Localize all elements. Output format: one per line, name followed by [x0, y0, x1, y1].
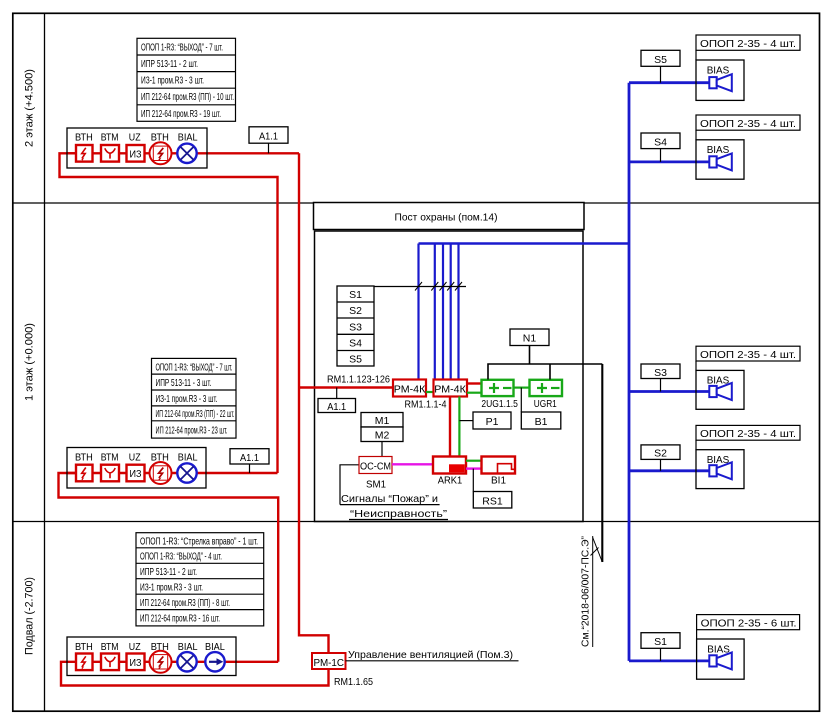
svg-text:ИПР 513-11 - 3 шт.: ИПР 513-11 - 3 шт. [156, 377, 212, 389]
svg-text:A1.1: A1.1 [240, 452, 259, 464]
box M2 [361, 427, 403, 442]
svg-text:ИПР 513-11 - 2 шт.: ИПР 513-11 - 2 шт. [141, 58, 198, 70]
power unit 2UG1.1.5 [482, 380, 514, 396]
lamp BIAL2 basement (arrow) [205, 652, 224, 671]
speaker BIAS S2 [696, 450, 744, 489]
wire RS1 tap [472, 469, 474, 492]
svg-text:BIAL: BIAL [178, 452, 198, 464]
box S4 [641, 133, 680, 162]
guard post title box [314, 203, 585, 230]
control unit ARK1 [433, 457, 466, 474]
svg-text:Пост охраны (пом.14): Пост охраны (пом.14) [395, 212, 498, 224]
speaker BIAS S4 [696, 140, 744, 179]
svg-text:ИЗ: ИЗ [130, 468, 142, 480]
sounder VTM basement [101, 654, 119, 671]
wire blue drop 4 [450, 244, 452, 380]
svg-text:BIAS: BIAS [707, 144, 730, 156]
sounder VTM floor2 (square with Y) [101, 145, 119, 162]
sounder VTM floor1 [101, 465, 119, 482]
svg-text:S2: S2 [654, 448, 667, 460]
svg-text:ИП 212-64 пром.R3 (ПП) - 22 шт: ИП 212-64 пром.R3 (ПП) - 22 шт. [156, 408, 235, 420]
wire basement red loop bottom [61, 662, 329, 686]
frame divider floor1/basement [13, 521, 820, 523]
note signals fire line1 [340, 493, 440, 505]
wire green link PM1-PM2 [426, 391, 434, 393]
wire basement device line [67, 661, 278, 663]
svg-text:S2: S2 [349, 305, 362, 317]
svg-text:ИП 212-64 пром.R3 - 23 шт.: ИП 212-64 пром.R3 - 23 шт. [156, 425, 228, 437]
stack S1-S5 [337, 286, 374, 366]
box A1.1 mid [318, 388, 356, 413]
box B1 [521, 412, 561, 429]
reference underline [592, 536, 594, 647]
frame divider floor2/floor1 [13, 202, 820, 204]
box A1.1 floor1 [230, 449, 269, 473]
svg-text:См.“2018-06/007-ПС.Э”: См.“2018-06/007-ПС.Э” [580, 536, 592, 647]
svg-text:2 этаж (+4.500): 2 этаж (+4.500) [24, 69, 36, 147]
wire blue drop 2 [434, 244, 436, 380]
wire green link PM2 to 2UG [467, 392, 482, 394]
device box floor1 [67, 448, 206, 489]
svg-text:ИЗ: ИЗ [130, 148, 142, 160]
label OPOP group S5 [696, 35, 800, 60]
svg-text:ИЗ-1 пром.R3 - 3 шт.: ИЗ-1 пром.R3 - 3 шт. [141, 75, 204, 87]
svg-text:ИП 212-64 пром.R3 (ПП) - 10 шт: ИП 212-64 пром.R3 (ПП) - 10 шт. [141, 91, 234, 103]
svg-text:ОПОП 2-35 - 4 шт.: ОПОП 2-35 - 4 шт. [700, 118, 796, 130]
svg-text:ОПОП 1-R3: “ВЫХОД” - 7 шт.: ОПОП 1-R3: “ВЫХОД” - 7 шт. [141, 42, 223, 54]
svg-text:ИП 212-64 пром.R3 - 19 шт.: ИП 212-64 пром.R3 - 19 шт. [141, 108, 221, 120]
wire N1 black feed [488, 346, 602, 380]
reference leader [593, 538, 603, 563]
indicator BI1 [482, 457, 516, 474]
wire red link PM2 to 2UG [467, 382, 482, 384]
speaker BIAS S5 [696, 60, 744, 100]
wire green ARK1 to BI1 [466, 460, 482, 462]
svg-text:1 этаж (+0.000): 1 этаж (+0.000) [24, 323, 36, 401]
wire blue drop 3 [442, 244, 444, 380]
lamp BIAL floor2 (blue circle X) [177, 144, 196, 163]
svg-text:ИЗ: ИЗ [130, 657, 142, 669]
svg-text:РМ-4К: РМ-4К [434, 383, 466, 395]
svg-text:ОПОП 2-35 - 4 шт.: ОПОП 2-35 - 4 шт. [700, 428, 796, 440]
detector VTH2 floor1 [150, 462, 172, 484]
svg-text:A1.1: A1.1 [327, 401, 346, 413]
wire blue branch S2 [629, 469, 709, 472]
note ventilation control [346, 649, 519, 661]
svg-text:РМ-4К: РМ-4К [394, 383, 426, 395]
svg-text:ВТМ: ВТМ [101, 132, 119, 144]
svg-text:ИП 212-64 пром.R3 (ПП) - 8 шт.: ИП 212-64 пром.R3 (ПП) - 8 шт. [140, 597, 230, 609]
svg-text:BIAL: BIAL [178, 132, 198, 144]
svg-text:RS1: RS1 [482, 496, 503, 508]
wire floor2 device line [67, 152, 299, 154]
isolator UZ basement [127, 654, 145, 671]
wire magenta ARK1 to BI1 [466, 467, 482, 469]
svg-text:ОПОП 2-35 - 6 шт.: ОПОП 2-35 - 6 шт. [701, 617, 797, 629]
wire green PM2 to ARK1 [458, 397, 460, 457]
lamp BIAL1 basement [177, 652, 196, 671]
svg-text:SM1: SM1 [366, 478, 386, 490]
svg-text:ИП 212-64 пром.R3 - 16 шт.: ИП 212-64 пром.R3 - 16 шт. [140, 612, 220, 624]
table basement [136, 533, 264, 626]
box M1 [361, 413, 403, 428]
wire floor1 red loop [59, 473, 279, 662]
svg-text:S3: S3 [654, 367, 667, 379]
svg-text:BI1: BI1 [491, 474, 506, 486]
box OC-CM [359, 457, 392, 474]
svg-text:S3: S3 [349, 321, 362, 333]
detector VTH2 floor2 (circle with square bolt) [150, 142, 172, 164]
speaker BIAS S3 [696, 370, 744, 409]
wire blue trunk [628, 83, 631, 661]
table floor1 [152, 358, 237, 438]
svg-text:RM1.1.65: RM1.1.65 [334, 676, 373, 688]
svg-text:ВТМ: ВТМ [101, 641, 119, 653]
isolator UZ floor1 [127, 465, 145, 482]
svg-text:S4: S4 [349, 338, 362, 350]
wire P1 tap [459, 420, 473, 422]
svg-text:“Неисправность”: “Неисправность” [350, 508, 448, 520]
svg-text:ОПОП 1-R3: “Стрелка вправо” -: ОПОП 1-R3: “Стрелка вправо” - 1 шт. [140, 535, 258, 547]
wire green link 2UG to UGR [514, 387, 530, 389]
signal line from S stack [374, 286, 466, 288]
frame label column divider [44, 13, 46, 711]
device box basement [67, 637, 236, 676]
svg-text:ИПР 513-11 - 2 шт.: ИПР 513-11 - 2 шт. [140, 566, 197, 578]
wire black riser to reference [601, 364, 603, 562]
svg-text:2UG1.1.5: 2UG1.1.5 [481, 398, 518, 410]
signal bracket to OC-CM [340, 465, 359, 505]
box S5 [641, 50, 680, 82]
svg-text:B1: B1 [535, 416, 548, 428]
wire red PM2 to ARK1 [449, 397, 451, 457]
svg-text:Подвал (-2.700): Подвал (-2.700) [24, 577, 36, 655]
svg-text:ОПОП 2-35 - 4 шт.: ОПОП 2-35 - 4 шт. [700, 349, 796, 361]
box P1 [473, 412, 511, 429]
detector VTH1 floor2 (square with bolt) [76, 145, 93, 162]
wire B1 tap [520, 388, 522, 412]
note signals fire line2 [349, 508, 448, 520]
box S3 [641, 364, 680, 392]
guard post box [315, 231, 584, 522]
wire floor1 device line [67, 472, 278, 474]
wire M2 to OC-CM [381, 442, 383, 457]
svg-text:UZ: UZ [129, 132, 141, 144]
svg-text:ОПОП 2-35 - 4 шт.: ОПОП 2-35 - 4 шт. [700, 38, 796, 50]
detector VTH2 basement [150, 651, 172, 673]
slash marks on signal line [415, 282, 462, 291]
wire floor2 riser to PM boxes and PM-1C [299, 153, 329, 653]
svg-text:P1: P1 [486, 416, 499, 428]
wire blue branch S1 [629, 660, 709, 663]
svg-text:RM1.1.1-4: RM1.1.1-4 [405, 399, 447, 411]
wire blue drop 1 [417, 244, 419, 380]
lamp BIAL floor1 [177, 463, 196, 482]
device box floor2 [67, 128, 207, 168]
svg-text:ИЗ-1 пром.R3 - 3 шт.: ИЗ-1 пром.R3 - 3 шт. [156, 393, 218, 405]
box S2 [641, 445, 680, 471]
relay module PM-4K 1 [393, 380, 426, 397]
detector VTH1 floor1 [76, 465, 93, 482]
isolator UZ floor2 (square IZ) [127, 145, 145, 162]
wire magenta OC-CM to ARK1 [392, 463, 433, 465]
wire blue branch S3 [629, 390, 709, 393]
svg-text:BIAS: BIAS [707, 65, 730, 77]
svg-text:Сигналы “Пожар” и: Сигналы “Пожар” и [341, 493, 438, 505]
svg-text:S5: S5 [654, 54, 667, 66]
svg-text:ВТН: ВТН [75, 132, 93, 144]
label OPOP group S4 [696, 115, 800, 140]
svg-text:M2: M2 [375, 430, 390, 442]
svg-text:S5: S5 [349, 353, 362, 365]
svg-text:S1: S1 [654, 636, 667, 648]
svg-text:ВТМ: ВТМ [101, 452, 119, 464]
box A1.1 floor2 [249, 127, 288, 154]
svg-text:ОПОП 1-R3: “ВЫХОД” - 4 шт.: ОПОП 1-R3: “ВЫХОД” - 4 шт. [140, 551, 222, 563]
svg-text:ОПОП 1-R3: “ВЫХОД” - 7 шт.: ОПОП 1-R3: “ВЫХОД” - 7 шт. [156, 361, 233, 373]
wire blue drop 5 [457, 244, 459, 380]
wire blue branch S5 [629, 81, 709, 84]
box S1 [641, 633, 680, 661]
svg-text:ВТН: ВТН [75, 452, 93, 464]
svg-text:ОС-СМ: ОС-СМ [360, 461, 391, 473]
svg-text:S4: S4 [654, 137, 667, 149]
speaker BIAS S1 [697, 639, 745, 679]
svg-text:N1: N1 [523, 333, 537, 345]
label OPOP group S1 [697, 615, 800, 639]
svg-text:A1.1: A1.1 [259, 131, 278, 143]
power unit UGR1 [530, 380, 563, 396]
relay module PM-1C [312, 653, 346, 669]
wire blue header [419, 242, 630, 245]
svg-text:UGR1: UGR1 [534, 398, 557, 410]
wire blue branch S4 [629, 160, 709, 163]
label OPOP group S2 [696, 425, 800, 449]
label OPOP group S3 [696, 346, 800, 370]
svg-text:ВТН: ВТН [75, 641, 93, 653]
svg-text:RM1.1.123-126: RM1.1.123-126 [327, 374, 390, 386]
svg-text:M1: M1 [375, 415, 390, 427]
box N1 [510, 329, 549, 346]
svg-text:РМ-1С: РМ-1С [314, 657, 345, 669]
svg-text:Управление вентиляцией (Пом.3): Управление вентиляцией (Пом.3) [348, 649, 513, 661]
box RS1 [473, 492, 512, 509]
svg-text:UZ: UZ [129, 452, 141, 464]
svg-text:ИЗ-1 пром.R3 - 3 шт.: ИЗ-1 пром.R3 - 3 шт. [140, 582, 203, 594]
svg-text:S1: S1 [349, 289, 362, 301]
detector VTH1 basement [76, 654, 93, 671]
wire red to PM-4K 1 [299, 386, 393, 388]
svg-text:ARK1: ARK1 [438, 474, 463, 486]
table floor2 [137, 38, 236, 121]
relay module PM-4K 2 [434, 380, 468, 397]
svg-text:UZ: UZ [129, 641, 141, 653]
wire floor2 red loop [60, 153, 278, 473]
